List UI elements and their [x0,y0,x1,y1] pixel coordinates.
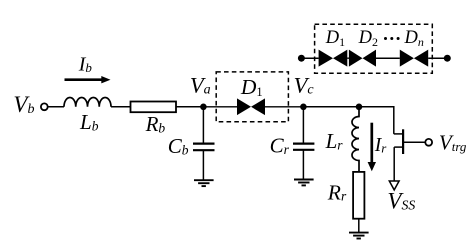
wire D1 to node Vc [265,106,303,108]
wire Dn to right dot [428,57,447,59]
transistor drain stub [394,133,403,135]
diode pair D1 (bowtie) [237,98,265,115]
series diode Dn (bowtie) [400,50,428,67]
gate lead [403,141,425,143]
node Va [200,104,207,111]
dashed box around D1 [216,72,288,122]
right terminal dot [444,55,451,62]
capacitor Cr [293,143,314,145]
wire Vb to Lb [48,106,64,108]
resistor Rr [353,172,364,219]
inductor Lb [64,97,111,106]
node at Lr branch [356,104,363,111]
transistor source stub [394,146,403,148]
inductor Lr (vertical coil) [352,107,359,172]
wire Va to D1 [203,106,237,108]
series diode D1 (bowtie) [319,50,348,67]
capacitor Cr branch wire upper [302,107,304,144]
Vss arrow (hollow down triangle) [389,181,399,190]
wire Cb to ground [202,150,204,180]
series diode D2 (bowtie) [349,50,376,67]
wire D1-D2 [347,57,349,59]
wire Rb to node Va [176,106,203,108]
terminal Vb open circle [41,103,48,110]
ellipsis dots [384,37,400,40]
current arrow Ir [370,123,373,163]
wire into top dashed box [301,57,318,59]
wire Rr to ground [358,219,360,233]
wire D2-Dn [376,57,400,59]
ground below Cb [194,180,214,186]
ground below Rr [349,233,369,239]
wire Vc to node Lr [303,106,359,108]
ground below Cr [294,180,314,186]
transistor channel bar [402,129,404,154]
resistor Rb [131,102,177,113]
source lead down [393,147,395,181]
top assembly: left terminal dot [298,55,305,62]
current arrow Ib [65,78,103,81]
wire Cr to ground [302,150,304,180]
node Vc [300,104,307,111]
capacitor Cb [193,143,215,145]
terminal Vtrg open circle [425,139,432,146]
dashed box around series diodes [315,24,433,73]
wire Lb to Rb [111,106,131,108]
wire node to transistor corner [359,107,394,134]
capacitor Cb branch wire upper [202,107,204,143]
